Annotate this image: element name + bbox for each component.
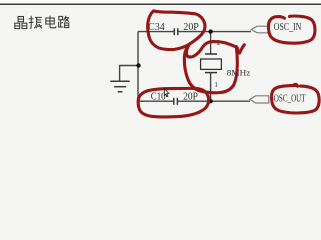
title 晶振电路 (drawn strokes)	[15, 16, 69, 29]
晶	[15, 17, 27, 29]
wire: bottom rail right segment to OSC_OUT port	[178, 100, 250, 102]
mouse cursor	[164, 89, 168, 97]
wire: ground tap	[120, 66, 139, 82]
svg-text:C34: C34	[148, 22, 164, 33]
junction dot bottom	[208, 99, 212, 103]
wire: bottom rail left segment	[138, 100, 174, 102]
red annotation: ring around OSC_OUT	[272, 85, 320, 113]
wire: left vertical rail	[137, 32, 139, 102]
ground symbol	[110, 81, 129, 92]
wire: top rail right segment to OSC_IN port	[178, 31, 251, 33]
电	[46, 16, 56, 28]
labels	[148, 22, 305, 105]
junction dot top	[208, 29, 212, 33]
svg-text:OSC_OUT: OSC_OUT	[274, 94, 306, 105]
red annotation: blob around crystal	[186, 42, 237, 57]
red annotation: ring around C10	[138, 88, 209, 117]
svg-text:8MHz: 8MHz	[227, 69, 251, 78]
sheet top border	[0, 3, 321, 5]
port symbol OSC_IN	[251, 26, 268, 33]
port symbol OSC_OUT	[250, 96, 269, 103]
red annotation: ellipse around C34	[138, 11, 319, 117]
svg-text:20P: 20P	[183, 22, 199, 33]
wire: top rail left segment	[120, 32, 251, 102]
wire: crystal top branch	[210, 32, 212, 54]
svg-text:C10: C10	[151, 92, 166, 103]
振	[29, 16, 42, 29]
capacitor C34 plates	[174, 28, 178, 35]
crystal Y1 8MHz	[201, 54, 222, 73]
路	[58, 16, 69, 28]
svg-text:20P: 20P	[183, 92, 198, 103]
wire: crystal bottom branch	[210, 73, 212, 102]
junction dot ground tap	[136, 63, 140, 67]
svg-text:OSC_IN: OSC_IN	[274, 22, 302, 33]
capacitor C10 plates	[174, 98, 178, 105]
svg-text:1: 1	[214, 81, 218, 89]
red annotation: ring around OSC_IN	[268, 16, 315, 43]
